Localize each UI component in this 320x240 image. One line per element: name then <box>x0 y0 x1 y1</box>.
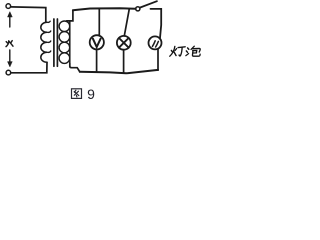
branch wire: voltmeter bottom <box>96 50 98 73</box>
bottom rail wire <box>80 70 158 73</box>
transformer secondary winding <box>59 21 70 32</box>
wire top-right corner to lamp branch <box>151 9 162 38</box>
branch wire: lamp L1 top <box>124 9 129 36</box>
switch S contact circle <box>136 7 140 11</box>
lamp L2 bulb (circle with filament) <box>149 36 162 49</box>
terminal T1 (top-left input) <box>6 4 11 9</box>
label "灯泡" (bulb) drawn as strokes <box>170 46 201 56</box>
svg-text:9: 9 <box>87 86 95 102</box>
top rail wire <box>73 8 136 10</box>
branch wire: lamp L2 bottom <box>157 49 159 70</box>
secondary bottom lead <box>70 63 80 71</box>
caption "图 9" <box>72 89 82 99</box>
wire from T2 to primary bottom <box>11 62 47 73</box>
灯 <box>171 50 173 52</box>
branch wire: lamp L1 bottom <box>123 50 125 73</box>
switch blade <box>140 1 157 7</box>
lamp L1 (circle-cross symbol) <box>117 36 131 50</box>
secondary top lead <box>67 10 73 21</box>
wire from T1 to primary top <box>11 7 46 22</box>
transformer core <box>53 19 55 66</box>
泡 <box>187 48 189 50</box>
voltmeter V <box>90 35 104 49</box>
branch wire: voltmeter top <box>98 9 100 36</box>
transformer primary winding <box>41 22 47 62</box>
arrow up (toward T1) <box>9 16 11 27</box>
AC source mark (small glyph between arrows) <box>6 41 13 47</box>
terminal T2 (bottom-left input) <box>6 70 11 75</box>
arrow down (toward T2) <box>9 50 11 62</box>
